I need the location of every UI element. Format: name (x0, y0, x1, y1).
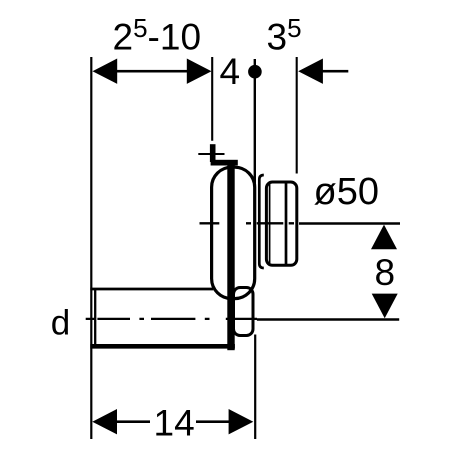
dimension line 14 (92, 409, 253, 434)
inlet pipe bottom (90, 344, 235, 349)
spigot inner line (285, 184, 288, 265)
8-dim bottom line (257, 318, 399, 321)
extension line mid (top of trap) (211, 57, 213, 141)
extension line right of 3.5 (296, 57, 298, 174)
8-dim up arrow (371, 225, 397, 250)
lower lobe (234, 288, 254, 336)
flange bar (227, 162, 234, 350)
extension line left (90, 57, 92, 439)
mounting tab (211, 160, 238, 166)
svg-text:8: 8 (375, 252, 396, 293)
spigot barrel (266, 182, 296, 265)
svg-text:25-10: 25-10 (113, 13, 202, 58)
8-dim down arrow (372, 294, 398, 319)
pipe centerline (86, 318, 257, 320)
trap body capsule (212, 167, 255, 298)
8-dim top line (299, 222, 400, 225)
extension line bottom right (254, 335, 256, 440)
dimension line 2.5-10 (93, 59, 212, 84)
wall line at screw (198, 153, 224, 155)
gasket ring right edge (269, 183, 271, 266)
screw stub (210, 144, 216, 162)
svg-text:14: 14 (154, 403, 195, 444)
pipe end inner line (94, 289, 96, 347)
dimension dot (248, 65, 262, 79)
dot extension line (254, 59, 256, 184)
inlet pipe top (90, 288, 213, 291)
svg-text:d: d (51, 304, 70, 343)
outlet centerline (200, 222, 300, 224)
svg-text:ø50: ø50 (314, 171, 379, 213)
gasket ring (259, 175, 264, 268)
arrow pointing left for 3.5 (298, 59, 348, 84)
svg-text:4: 4 (220, 51, 241, 92)
